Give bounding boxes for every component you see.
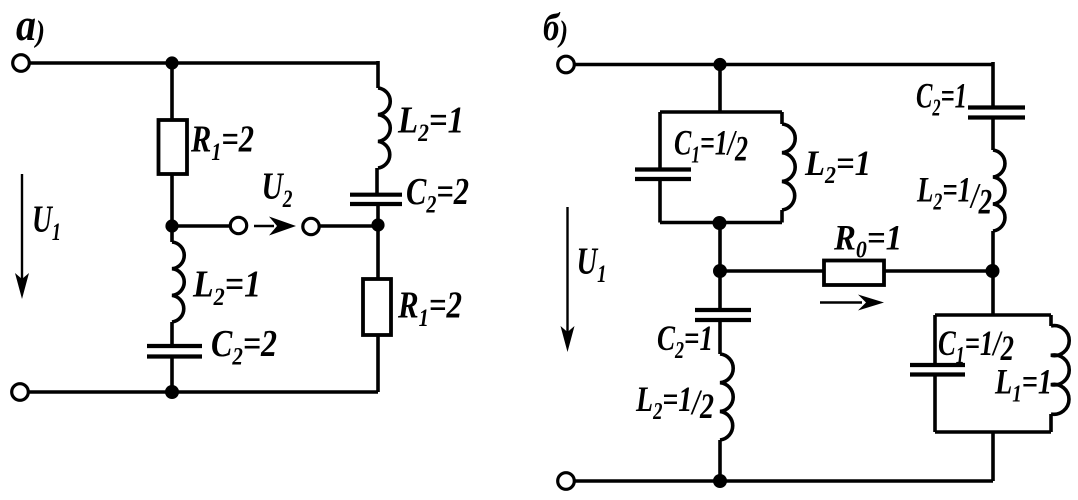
svg-text:L1=1: L1=1 bbox=[994, 362, 1052, 408]
wire bottom circuit a bbox=[29, 390, 378, 394]
wire C2 to L2 right bbox=[991, 119, 995, 150]
tank box 1 right side upper bbox=[780, 112, 784, 124]
svg-text:R1=2: R1=2 bbox=[190, 119, 254, 167]
wire tank 1 to mid node bbox=[718, 223, 722, 271]
capacitor C2 (left branch, circuit a) bbox=[147, 346, 202, 357]
capacitor C2 (right branch, circuit a) bbox=[350, 195, 402, 204]
wire bottom circuit b bbox=[575, 479, 993, 483]
svg-text:L2=1: L2=1 bbox=[804, 143, 871, 189]
wire top-right corner down to L2 bbox=[376, 61, 380, 88]
tank box 2 right side upper bbox=[1049, 315, 1053, 326]
svg-text:C2=1: C2=1 bbox=[657, 318, 713, 364]
node below tank 1 bbox=[713, 216, 727, 230]
inductor L2 (right branch, circuit a) bbox=[378, 88, 390, 168]
arrow U2 bbox=[254, 225, 274, 228]
capacitor C2=1 (left branch b) bbox=[695, 310, 751, 320]
tank box 1 right side lower bbox=[780, 210, 784, 223]
wire mid node down to C2 left branch bbox=[718, 271, 722, 308]
tank box 1 left side upper bbox=[658, 112, 662, 168]
node bottom b bbox=[713, 474, 727, 488]
tank box 2 right side lower bbox=[1049, 414, 1053, 432]
inductor L2=1 (tank 1) bbox=[782, 124, 795, 210]
wire node to tank 1 bbox=[718, 65, 722, 113]
capacitor C1=1/2 (tank 1) bbox=[635, 170, 691, 180]
wire mid node down to L2 left branch bbox=[170, 226, 174, 242]
wire R0 to right node bbox=[884, 269, 993, 273]
wire C2 to bottom node bbox=[170, 358, 174, 392]
wire tank 2 to bottom bbox=[991, 432, 995, 481]
wire top circuit b bbox=[575, 63, 993, 67]
node mid-right b bbox=[986, 264, 1000, 278]
wire top circuit a bbox=[30, 61, 378, 65]
svg-text:L2=1/2: L2=1/2 bbox=[635, 379, 714, 426]
svg-text:C2=1: C2=1 bbox=[916, 76, 967, 122]
wire L2 to bottom node bbox=[718, 440, 722, 481]
wire R1 to mid node bbox=[170, 174, 174, 226]
resistor R1 (left, circuit a) bbox=[159, 120, 188, 174]
node bottom a bbox=[165, 385, 179, 399]
capacitor C1=1/2 (tank 2) bbox=[910, 365, 965, 375]
output terminal right a bbox=[303, 218, 319, 234]
svg-text:C2=2: C2=2 bbox=[406, 171, 469, 219]
tank box 2 left side upper bbox=[933, 315, 937, 363]
arrow under R0 bbox=[820, 301, 862, 304]
wire node to R1 bbox=[170, 63, 174, 120]
tank box 1 bottom edge bbox=[660, 221, 782, 225]
node top junction a bbox=[165, 56, 178, 69]
output terminal left a bbox=[230, 217, 246, 233]
wire L2 to C2 bbox=[375, 168, 379, 193]
svg-text:R0=1: R0=1 bbox=[833, 218, 902, 264]
wire mid node to output terminal bbox=[172, 224, 230, 228]
svg-text:R1=2: R1=2 bbox=[397, 285, 462, 333]
wire L2 to C2 left bbox=[170, 322, 174, 344]
tank box 2 left side lower bbox=[933, 376, 937, 432]
svg-text:L2=1: L2=1 bbox=[397, 100, 464, 148]
wire C2 to L2 left bbox=[718, 322, 722, 354]
resistor R0 bbox=[824, 261, 884, 286]
node mid-left b bbox=[713, 264, 727, 278]
wire C2 to node bbox=[376, 205, 380, 225]
wire R1 to bottom bbox=[376, 335, 380, 392]
wire output to right node bbox=[319, 224, 378, 228]
wire top-right corner down to C2 bbox=[991, 62, 995, 106]
inductor L2=1/2 (left branch b) bbox=[720, 354, 733, 440]
svg-text:L2=1: L2=1 bbox=[192, 264, 261, 312]
inductor L2 (left branch, circuit a) bbox=[172, 242, 184, 322]
capacitor C2=1 (right branch b) bbox=[968, 108, 1025, 118]
tank box 2 bottom edge bbox=[935, 430, 1051, 434]
arrow U1 circuit b bbox=[566, 207, 568, 334]
inductor L2=1/2 (right branch b) bbox=[993, 150, 1005, 231]
svg-text:C1=1/2: C1=1/2 bbox=[674, 123, 748, 169]
terminal bottom-left circuit b bbox=[558, 473, 575, 490]
wire mid-right node to tank 2 bbox=[991, 271, 995, 315]
terminal top-left circuit b bbox=[558, 56, 575, 73]
terminal bottom-left circuit a bbox=[12, 384, 29, 401]
wire node to R1 right bbox=[376, 225, 380, 279]
tank box 1 left side lower bbox=[658, 180, 662, 223]
inductor L1=1 (tank 2) bbox=[1051, 326, 1069, 415]
node mid-left a bbox=[165, 219, 178, 232]
arrow U1 circuit a bbox=[21, 174, 23, 280]
resistor R1 (right, circuit a) bbox=[363, 279, 391, 335]
svg-text:C2=2: C2=2 bbox=[211, 323, 277, 371]
tank box 1 top edge bbox=[660, 110, 782, 114]
tank box 2 top edge bbox=[935, 313, 1051, 317]
wire L2 to mid-right node bbox=[991, 231, 995, 271]
wire mid node to R0 bbox=[720, 269, 824, 273]
node top junction b bbox=[713, 58, 726, 71]
terminal top-left circuit a bbox=[13, 55, 30, 72]
node mid-right a bbox=[371, 218, 384, 231]
